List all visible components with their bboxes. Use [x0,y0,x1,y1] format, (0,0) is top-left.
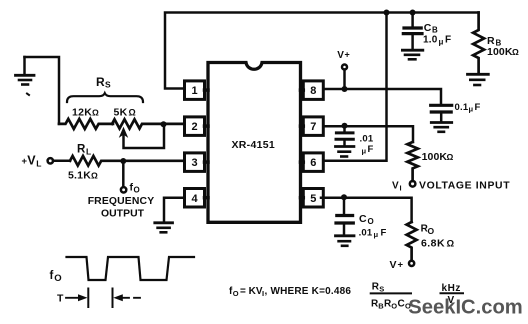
svg-text:L: L [86,147,91,157]
svg-text:F: F [381,228,387,239]
svg-text:C: C [359,213,367,225]
wire pin8 [323,89,441,103]
wire pin1 to top rail [165,13,479,89]
svg-text:O: O [233,289,239,298]
terminal V+ RO [409,261,414,266]
ground [336,147,354,157]
svg-text:V: V [392,181,399,192]
resistor 100K [407,142,418,181]
svg-text:100K: 100K [487,46,513,58]
ground [468,74,489,85]
svg-text:Ω: Ω [92,108,99,118]
wire [25,57,60,124]
wiper arrow [124,128,165,149]
ground [336,236,355,246]
formula kHz/V [442,283,461,306]
svg-text:4: 4 [192,193,199,205]
resistor RB [473,13,484,73]
svg-text:6: 6 [310,157,316,169]
pin 6 [301,153,324,172]
svg-text:O: O [428,226,435,236]
svg-text:6.8K: 6.8K [421,238,445,250]
node F [342,123,348,129]
svg-text:0.1: 0.1 [455,102,469,113]
svg-text:1.0: 1.0 [423,35,438,46]
pin 5 [301,189,324,208]
svg-text:f: f [50,270,54,282]
svg-text:V: V [390,259,397,271]
svg-text:100K: 100K [422,151,448,163]
IC U1 XR-4151 body [208,63,301,223]
wire fO output [122,161,125,187]
capacitor CO [336,199,353,234]
svg-text:F: F [475,102,481,113]
waveform [67,257,195,280]
resistor R1 12K [59,119,113,129]
svg-text:VOLTAGE INPUT: VOLTAGE INPUT [419,181,510,192]
svg-text:μ: μ [362,147,367,156]
wire pin4 ground [164,198,187,222]
node E [342,86,348,92]
pin 7 [301,117,324,135]
svg-text:T: T [57,293,64,305]
svg-text:, WHERE K=0.486: , WHERE K=0.486 [265,286,352,297]
node B [120,158,126,164]
svg-text:μ: μ [469,104,474,113]
pin 8 [301,81,324,100]
svg-text:2: 2 [192,121,198,133]
stray mark [27,94,29,96]
svg-text:Ω: Ω [91,171,98,181]
capacitor .01uF pin7 [336,126,353,145]
svg-text:OUTPUT: OUTPUT [101,209,145,220]
svg-text:B: B [432,26,438,35]
svg-text:μ: μ [439,38,444,47]
brace RS [67,93,143,102]
svg-text:L: L [36,159,41,169]
ground [431,123,451,132]
svg-text:1: 1 [192,85,198,97]
ground [402,50,422,59]
ground [16,57,35,85]
svg-text:= KV: = KV [240,286,263,297]
svg-text:I: I [400,184,402,193]
svg-text:O: O [391,302,397,311]
svg-text:R: R [96,75,105,89]
arrow T right [112,289,114,308]
svg-text:5K: 5K [114,107,128,119]
svg-text:O: O [368,217,374,226]
svg-text:O: O [134,186,140,195]
capacitor CB [403,13,422,49]
svg-text:5: 5 [310,193,316,205]
node top D [410,10,416,16]
capacitor 0.1uF [431,105,452,120]
svg-text:μ: μ [374,230,379,239]
svg-text:+: + [345,50,350,60]
svg-text:FREQUENCY: FREQUENCY [88,196,155,207]
svg-text:S: S [379,285,384,294]
pin 4 [185,189,209,208]
svg-text:V: V [337,50,344,61]
svg-text:SeekIC.com: SeekIC.com [408,297,522,319]
svg-text:F: F [368,144,374,155]
svg-text:7: 7 [310,121,316,133]
arrow T left [66,297,82,299]
pin 2 [185,117,209,135]
svg-text:C: C [424,22,432,34]
svg-text:12K: 12K [72,107,92,119]
svg-text:S: S [105,80,111,90]
node top C [384,10,390,16]
svg-text:Ω: Ω [129,108,136,118]
terminal VI [410,181,416,187]
svg-text:XR-4151: XR-4151 [232,139,276,151]
svg-text:Ω: Ω [512,47,519,57]
wire pin6 vertical [323,13,386,161]
terminal fO [121,187,126,192]
svg-text:.01: .01 [360,134,374,145]
wire pin5 [321,198,412,222]
svg-text:Ω: Ω [447,239,455,250]
svg-text:O: O [54,273,61,284]
svg-text:Ω: Ω [447,152,454,162]
wire [53,160,70,163]
resistor R2 5K pot [112,119,185,128]
svg-text:R: R [77,144,86,156]
pin 3 [185,153,209,172]
svg-text:.01: .01 [359,228,373,239]
resistor RO 6.8K [407,222,417,261]
svg-text:8: 8 [310,85,316,97]
svg-text:5.1K: 5.1K [68,170,91,182]
node G [341,194,347,200]
svg-text:C: C [398,299,405,310]
svg-text:V: V [27,154,36,168]
resistor RL 5.1K [70,156,185,166]
pin 1 [185,81,209,100]
ground [155,223,173,233]
svg-text:F: F [445,35,451,46]
formula [229,286,351,298]
formula fraction RS/RBROCO [371,282,411,311]
node A [161,121,167,127]
svg-text:3: 3 [192,157,198,169]
wire pin7 [323,126,413,142]
svg-text:+: + [398,260,404,271]
